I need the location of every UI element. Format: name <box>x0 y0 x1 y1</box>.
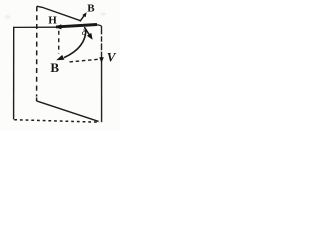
vertical plane left edge <box>13 27 15 120</box>
smudge top-left <box>5 15 11 19</box>
svg-text:B: B <box>50 60 59 75</box>
smudge top-right <box>100 12 106 15</box>
background <box>0 0 120 131</box>
arrow toward B label (up-right) <box>80 15 85 22</box>
V arrowhead on right edge <box>99 57 104 63</box>
meridian plane top slant edge <box>37 6 81 21</box>
corner of meridian plane <box>36 98 38 102</box>
vertical plane top edge <box>13 26 56 28</box>
vertical plane right edge <box>101 26 103 122</box>
meridian plane bottom slant edge <box>37 101 99 122</box>
H arrow shaft thick <box>56 25 97 27</box>
meridian plane dashed left edge <box>36 6 38 96</box>
short arrow down-right <box>84 27 89 35</box>
top-right corner bit <box>97 25 102 26</box>
B vector line <box>64 29 86 57</box>
dashed vertical construction line <box>58 31 60 54</box>
svg-text:δ: δ <box>82 28 87 38</box>
right edge scan gaps <box>101 34 103 51</box>
vertical plane bottom dotted edge <box>14 120 100 123</box>
svg-text:B: B <box>87 2 95 14</box>
svg-text:H: H <box>48 15 57 27</box>
B vector arrowhead <box>56 55 64 60</box>
H arrowhead <box>55 24 62 29</box>
svg-text:V: V <box>107 50 117 65</box>
dashed horizontal construction line <box>70 59 100 62</box>
